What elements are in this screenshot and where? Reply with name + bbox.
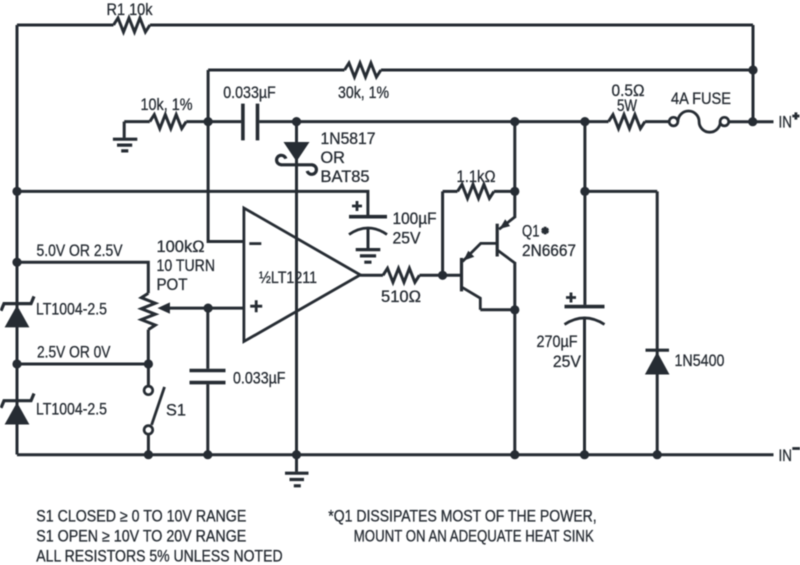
svg-text:0.033µF: 0.033µF [233, 370, 286, 388]
svg-text:1N5400: 1N5400 [675, 352, 725, 370]
wire 30k row right segment [381, 69, 753, 72]
transistor Q1 lower emitter arrow [463, 251, 474, 261]
svg-text:25V: 25V [393, 229, 421, 247]
zener D3 LT1004 lower bar [1, 394, 34, 408]
node dot wiper [204, 304, 213, 313]
resistor 10k 1% [150, 115, 186, 129]
switch S1 upper lead [147, 364, 150, 386]
ground G3 stub [295, 455, 298, 472]
op-amp minus sign [249, 242, 261, 245]
transistor Q1 upper emitter diagonal [499, 217, 515, 229]
svg-text:10 TURN: 10 TURN [157, 257, 216, 275]
node dot rail 296 [292, 450, 301, 459]
svg-text:4A FUSE: 4A FUSE [671, 90, 731, 108]
svg-text:ALL RESISTORS 5% UNLESS NOTED: ALL RESISTORS 5% UNLESS NOTED [36, 547, 282, 565]
op-amp plus sign [250, 300, 262, 312]
node dot left 364 [12, 359, 21, 368]
node dot emitter top [510, 187, 519, 196]
node dot left 262 [12, 258, 21, 267]
wire inverting input branch [208, 70, 244, 242]
svg-text:1N5817: 1N5817 [321, 130, 376, 148]
resistor 0.5 ohm [609, 115, 645, 129]
svg-text:270µF: 270µF [537, 333, 578, 351]
svg-text:LT1004-2.5: LT1004-2.5 [36, 301, 107, 319]
fuse F1 right circle [720, 117, 729, 126]
svg-text:5.0V OR 2.5V: 5.0V OR 2.5V [37, 242, 123, 260]
node dot left V+ [12, 187, 21, 196]
capacitor C2 stub to ground [367, 229, 370, 249]
svg-text:*Q1 DISSIPATES MOST OF THE POW: *Q1 DISSIPATES MOST OF THE POWER, [328, 508, 596, 526]
wire 2.5V or 0V row [17, 363, 148, 366]
capacitor C4 lower lead [583, 318, 586, 454]
wire bottom rail [17, 453, 774, 456]
node dot collector [510, 305, 519, 314]
svg-text:100kΩ: 100kΩ [157, 238, 205, 256]
wire 10k to C1 [186, 120, 241, 123]
zener D3 LT1004 triangle [5, 402, 30, 424]
resistor 510 ohm [383, 268, 419, 282]
diode D4 1N5400 vertical [656, 191, 659, 454]
fuse F1 element [678, 111, 720, 132]
svg-text:MOUNT ON AN ADEQUATE HEAT SINK: MOUNT ON AN ADEQUATE HEAT SINK [354, 528, 594, 546]
wire right vertical x=755 [752, 25, 755, 122]
capacitor C3 lower lead [206, 384, 209, 454]
svg-text:2.5V OR 0V: 2.5V OR 0V [37, 344, 111, 362]
capacitor C4 270uF top plate [565, 305, 605, 309]
wire fuse to IN+ terminal [729, 120, 774, 123]
wire C1 to IN+ rail middle [259, 120, 608, 123]
wire V+ rail y=191 [17, 191, 368, 215]
svg-text:LT1004-2.5: LT1004-2.5 [36, 401, 107, 419]
svg-text:POT: POT [157, 276, 188, 294]
ground G1 stub [123, 122, 126, 138]
ground G2 bars [356, 250, 381, 263]
transistor Q1 upper base bar [496, 224, 499, 257]
switch S1 lever [152, 387, 165, 425]
svg-text:S1: S1 [166, 401, 186, 419]
op-amp U1 triangle [244, 208, 360, 342]
node dot rail 515 [510, 450, 519, 459]
svg-text:Q1: Q1 [522, 223, 540, 241]
wire IN+ rail to 10k resistor [124, 120, 150, 123]
diode D1 1N5817 triangle [284, 142, 310, 162]
node dot rail 657 [653, 450, 662, 459]
svg-text:1.1kΩ: 1.1kΩ [457, 168, 496, 186]
svg-text:OR: OR [321, 149, 345, 167]
svg-text:25V: 25V [553, 353, 581, 371]
svg-text:100µF: 100µF [393, 210, 437, 228]
resistor 30k 1% [345, 63, 381, 77]
ground G3 bars [285, 473, 309, 486]
svg-text:10k, 1%: 10k, 1% [141, 96, 193, 114]
wire top rail right segment [150, 24, 753, 27]
transistor Q1 lower emitter diagonal [463, 243, 497, 261]
wire x=584.9 vertical upper [583, 122, 586, 305]
switch S1 top circle [144, 386, 153, 395]
wire 1.1k left connector [443, 190, 458, 193]
svg-text:S1 CLOSED ≥ 0 TO 10V RANGE: S1 CLOSED ≥ 0 TO 10V RANGE [36, 508, 246, 526]
svg-text:0.033µF: 0.033µF [223, 84, 276, 102]
wire 510 to base node [419, 274, 460, 277]
fuse F1 left circle [669, 117, 678, 126]
diode D4 triangle [645, 352, 670, 375]
wire emitter branch vertical x=514.8 [513, 122, 516, 218]
svg-text:510Ω: 510Ω [381, 288, 421, 306]
node dot 755 30k row [748, 65, 757, 74]
zener D2 LT1004 upper bar [1, 296, 34, 310]
potentiometer wiper arrow [158, 302, 170, 313]
node dot base [438, 271, 447, 280]
zener D2 LT1004 triangle [5, 305, 30, 327]
wire 1.1k right lead [494, 190, 515, 193]
node dot rail 148 [144, 450, 153, 459]
switch S1 bottom circle [144, 426, 153, 435]
diode D1 1N5817 vertical line [295, 122, 298, 455]
node dot switch top [144, 359, 153, 368]
capacitor C2 100uF top plate [349, 215, 387, 219]
svg-text:IN: IN [779, 114, 793, 132]
wire 30k row [208, 69, 344, 72]
capacitor C3 plates [190, 371, 226, 383]
switch S1 lower lead [147, 434, 150, 454]
wire op-amp output [360, 274, 383, 277]
wire to 1N5400 branch [585, 190, 657, 193]
capacitor C3 0.033uF upper lead [206, 308, 209, 369]
node dot rail 208 [203, 450, 212, 459]
capacitor C4 270uF curved plate [565, 318, 605, 325]
wire left vertical bus [16, 25, 19, 455]
capacitor C2 100uF curved plate [349, 228, 387, 235]
potentiometer wiper wire [168, 307, 208, 310]
wire 5.0V or 2.5V row [17, 262, 148, 293]
resistor R1 [114, 18, 150, 32]
wire lower collector to node [480, 308, 515, 311]
diode D4 cathode bar [646, 349, 670, 352]
node dot 585 V+ branch [580, 187, 589, 196]
svg-text:5W: 5W [617, 97, 638, 115]
svg-text:IN: IN [779, 447, 793, 465]
svg-text:R1 10k: R1 10k [107, 1, 154, 19]
transistor Q1 lower base bar [460, 258, 463, 292]
wire collector node down [513, 262, 516, 455]
wire noninverting input [208, 307, 244, 310]
svg-text:BAT85: BAT85 [321, 168, 370, 186]
svg-text:2N6667: 2N6667 [522, 242, 576, 260]
node dot 296 IN+ rail [292, 117, 301, 126]
svg-text:30k, 1%: 30k, 1% [338, 84, 389, 102]
potentiometer R7 body [141, 293, 155, 329]
ground G1 bars [113, 139, 137, 151]
capacitor C4 270uF plus sign [566, 293, 576, 303]
transistor Q1 upper emitter arrow [500, 219, 511, 229]
capacitor C2 100uF plus sign [352, 201, 362, 211]
resistor 1.1k [458, 184, 494, 198]
wire top rail left segment [17, 24, 114, 27]
node dot rail 585 [580, 450, 589, 459]
node dot 208 IN+ rail [204, 117, 213, 126]
transistor Q1 upper collector [498, 251, 515, 264]
wire 0.5 ohm to fuse [645, 120, 669, 123]
capacitor C1 0.033uF plates [243, 104, 258, 141]
wire 1.1k left lead down [441, 191, 444, 275]
svg-text:S1 OPEN ≥ 10V TO 20V RANGE: S1 OPEN ≥ 10V TO 20V RANGE [36, 528, 246, 546]
node dot 585 IN+ rail [580, 117, 589, 126]
node dot 755 IN+ rail [748, 117, 757, 126]
diode D1 schottky bar [281, 163, 313, 166]
svg-text:½LT1211: ½LT1211 [259, 269, 317, 287]
potentiometer lower lead [147, 330, 150, 364]
transistor Q1 lower collector [463, 288, 481, 310]
node dot 515 IN+ rail [510, 117, 519, 126]
